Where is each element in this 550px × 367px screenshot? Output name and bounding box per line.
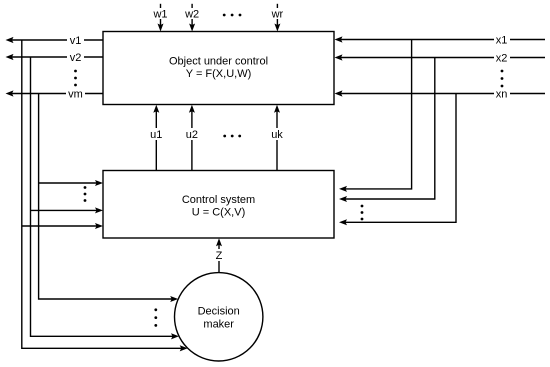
svg-text:v1: v1 [70,35,82,47]
wire v1 output arrow [6,34,104,47]
svg-text:u2: u2 [186,129,198,141]
svg-text:Y = F(X,U,W): Y = F(X,U,W) [186,68,252,80]
dots right inputs of control system [361,205,364,221]
wire x2 branch into control system right input 2 [339,58,435,203]
wire v2 output arrow [6,51,104,64]
svg-text:x2: x2 [496,53,508,65]
wire w1 disturbance arrow [152,4,169,32]
dots left of decision maker [154,308,157,326]
block U1: Object under control [103,32,334,105]
svg-text:Object under control: Object under control [169,56,268,68]
wire w2 disturbance arrow [184,4,201,32]
dots between w2 and wr [223,14,242,17]
svg-text:w2: w2 [184,9,199,21]
svg-text:x1: x1 [496,35,508,47]
svg-text:xn: xn [496,89,508,101]
wire wr disturbance arrow [269,4,285,32]
svg-text:Decision: Decision [198,306,240,318]
wire vm feedback down to decision maker [39,94,179,303]
wire u2 control arrow [184,105,200,171]
wire vm branch into control system left input 1 [39,180,103,186]
wire x2 input arrow [335,52,546,65]
dots between u2 and uk [223,135,241,138]
wire xn input arrow [335,88,546,101]
svg-text:Z: Z [216,250,223,262]
wire v2 feedback down to decision maker [31,57,180,339]
wire v1 branch into control system left input 3 [22,223,103,229]
svg-text:U = C(X,V): U = C(X,V) [192,207,245,219]
svg-text:vm: vm [68,89,83,101]
svg-text:Control system: Control system [182,194,255,206]
dots left inputs of control system [84,186,87,202]
dots between v2 and vm [74,70,77,87]
svg-text:v2: v2 [70,52,82,64]
wire v2 branch into control system left input 2 [31,207,104,213]
svg-text:w1: w1 [152,9,167,21]
wire xn branch into control system right input 3 [339,94,456,226]
block U3: Decision maker (circle) [175,273,263,361]
svg-text:uk: uk [271,129,283,141]
wire uk control arrow [269,105,285,171]
svg-text:u1: u1 [150,129,162,141]
wire vm output arrow [6,88,104,101]
wire Z decision arrow [213,238,225,273]
block U2: Control system [103,171,334,239]
wire x1 branch into control system right input 1 [339,40,412,192]
dots between x2 and xn [501,70,504,88]
wire u1 control arrow [148,105,164,171]
svg-text:maker: maker [203,319,234,331]
svg-text:wr: wr [271,9,284,21]
wire x1 input arrow [335,34,546,47]
wire v1 feedback down to decision maker [22,40,188,351]
